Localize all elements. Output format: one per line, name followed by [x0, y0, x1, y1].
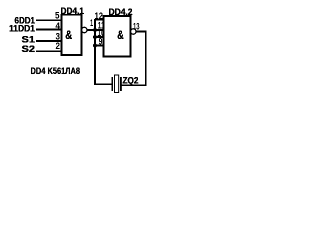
wire S2 to pin 2 [36, 50, 62, 52]
wire input bus: pin12 corner down to crystal [95, 20, 104, 85]
gate DD4.1 output inversion bubble [82, 27, 87, 32]
svg-text:12: 12 [95, 11, 104, 21]
crystal ZQ2 left plate [111, 77, 113, 91]
junction pin 9 [93, 44, 97, 48]
gate DD4.2 body [104, 16, 131, 57]
wire pin13 output right and down to crystal [122, 32, 146, 86]
crystal ZQ2 body [115, 75, 119, 93]
wire pin1 output to DD4.2 pin 11 [87, 29, 104, 31]
svg-text:S1: S1 [22, 34, 36, 44]
wire bus to pin 10 [95, 36, 104, 38]
svg-text:ZQ2: ZQ2 [123, 76, 139, 86]
wire 6DD1 to pin 5 [36, 19, 62, 21]
svg-text:&: & [117, 28, 124, 42]
junction pin 10 [93, 35, 97, 39]
svg-text:9: 9 [99, 37, 103, 47]
wire 11DD1 to pin 4 [36, 29, 62, 31]
wire S1 to pin 3 [36, 40, 62, 42]
svg-text:5: 5 [55, 10, 60, 20]
junction pin 11 [93, 28, 97, 32]
svg-text:S2: S2 [22, 44, 36, 54]
gate DD4.1 body [62, 15, 82, 55]
svg-text:11DD1: 11DD1 [9, 24, 35, 34]
wire bus corner to crystal left plate [95, 83, 112, 85]
wire bus to pin 9 [95, 45, 104, 47]
svg-text:&: & [65, 28, 72, 42]
svg-text:13: 13 [133, 22, 140, 32]
svg-text:DD4 K561ЛА8: DD4 K561ЛА8 [31, 66, 81, 76]
svg-text:1: 1 [90, 18, 93, 28]
svg-text:4: 4 [56, 21, 61, 31]
gate DD4.2 output inversion bubble [131, 29, 136, 34]
svg-text:2: 2 [56, 41, 61, 51]
crystal ZQ2 right plate [120, 77, 122, 91]
